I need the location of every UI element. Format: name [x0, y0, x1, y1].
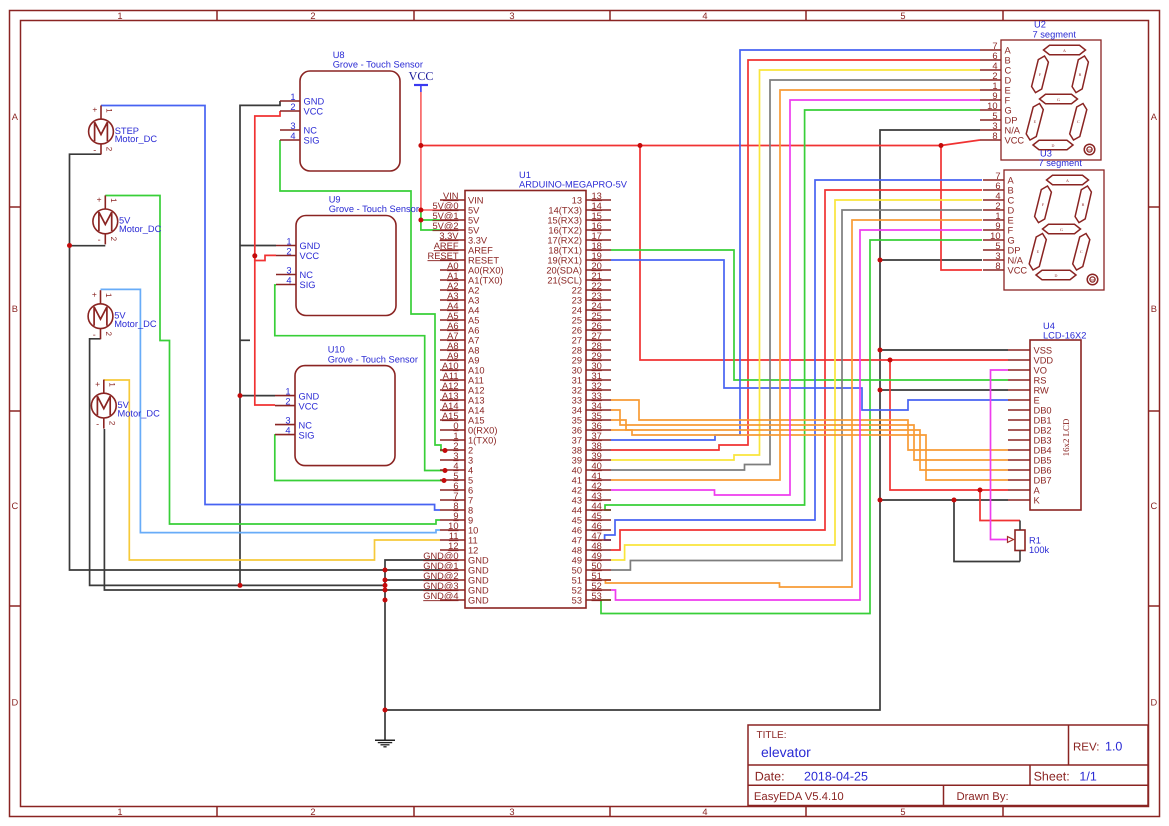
svg-text:DB3: DB3 — [1034, 436, 1052, 446]
svg-text:20: 20 — [592, 261, 602, 271]
svg-text:EasyEDA V5.4.10: EasyEDA V5.4.10 — [754, 791, 844, 803]
svg-text:18: 18 — [592, 241, 602, 251]
svg-text:TITLE:: TITLE: — [757, 730, 787, 741]
svg-text:GND: GND — [468, 556, 489, 566]
svg-text:GND@1: GND@1 — [423, 561, 458, 571]
svg-text:4: 4 — [290, 131, 295, 141]
svg-text:4: 4 — [702, 807, 707, 817]
wire VCC U9 pin2 jog — [255, 255, 276, 260]
IC U2 7 segment — [980, 20, 1101, 160]
IC U1 ARDUINO-MEGAPRO-5V — [465, 170, 628, 608]
svg-text:A15: A15 — [442, 411, 459, 421]
svg-text:SIG: SIG — [304, 136, 320, 146]
svg-text:AREF: AREF — [468, 246, 493, 256]
svg-text:D: D — [1055, 273, 1058, 278]
svg-text:1: 1 — [995, 211, 1000, 221]
wire D39 to U2 C — [611, 70, 980, 460]
svg-text:22: 22 — [572, 286, 582, 296]
svg-text:VIN: VIN — [443, 191, 459, 201]
wire GND motor4 to GND@3 — [104, 429, 440, 590]
svg-text:GND@0: GND@0 — [423, 551, 458, 561]
wire motor4 to pin11 — [104, 380, 440, 560]
svg-text:11: 11 — [449, 531, 459, 541]
wire VCC touch sensor chain — [255, 111, 280, 405]
svg-text:10: 10 — [468, 526, 478, 536]
svg-text:39: 39 — [592, 451, 602, 461]
svg-text:elevator: elevator — [761, 744, 811, 760]
svg-text:10: 10 — [990, 231, 1000, 241]
svg-text:17(RX2): 17(RX2) — [547, 236, 582, 246]
wire GND branch LCD RW — [880, 389, 1008, 391]
svg-text:17: 17 — [592, 231, 602, 241]
svg-text:A6: A6 — [447, 321, 458, 331]
svg-text:0(RX0): 0(RX0) — [468, 426, 497, 436]
svg-text:34: 34 — [592, 401, 602, 411]
svg-text:42: 42 — [572, 486, 582, 496]
svg-text:16x2 LCD: 16x2 LCD — [1061, 418, 1071, 456]
svg-text:48: 48 — [572, 546, 582, 556]
svg-text:B: B — [1008, 186, 1014, 196]
svg-text:25: 25 — [572, 316, 582, 326]
wire D36 to LCD DB7 — [611, 430, 1008, 480]
svg-text:40: 40 — [592, 461, 602, 471]
svg-text:A: A — [1151, 112, 1158, 122]
svg-text:1: 1 — [992, 81, 997, 91]
svg-text:VO: VO — [1034, 366, 1047, 376]
svg-text:47: 47 — [572, 536, 582, 546]
IC U4 LCD-16X2 — [1008, 321, 1086, 510]
svg-text:DB5: DB5 — [1034, 456, 1052, 466]
svg-text:E: E — [1008, 216, 1014, 226]
svg-text:VCC: VCC — [300, 251, 320, 261]
motor M 5V Motor_DC 3 — [88, 289, 157, 339]
svg-text:37: 37 — [572, 436, 582, 446]
svg-text:35: 35 — [592, 411, 602, 421]
svg-text:32: 32 — [592, 381, 602, 391]
svg-text:41: 41 — [592, 471, 602, 481]
svg-text:50: 50 — [592, 561, 602, 571]
svg-text:A12: A12 — [442, 381, 459, 391]
svg-text:-: - — [96, 419, 99, 429]
svg-text:5: 5 — [992, 111, 997, 121]
svg-text:D: D — [11, 698, 18, 708]
svg-text:A0: A0 — [447, 261, 458, 271]
svg-text:1: 1 — [105, 108, 114, 113]
svg-text:+: + — [95, 379, 100, 389]
svg-text:GND: GND — [468, 586, 489, 596]
svg-text:2018-04-25: 2018-04-25 — [804, 770, 868, 784]
svg-text:U10: U10 — [328, 345, 345, 355]
svg-text:46: 46 — [592, 521, 602, 531]
wire VCC to U3 pin8 — [941, 146, 982, 271]
svg-text:A2: A2 — [447, 281, 458, 291]
svg-text:A5: A5 — [468, 316, 479, 326]
svg-text:A7: A7 — [447, 331, 458, 341]
svg-text:AREF: AREF — [434, 241, 459, 251]
svg-text:3: 3 — [453, 451, 458, 461]
svg-text:8: 8 — [995, 261, 1000, 271]
svg-text:6: 6 — [453, 481, 458, 491]
svg-text:A2: A2 — [468, 286, 479, 296]
svg-text:5V@1: 5V@1 — [433, 211, 459, 221]
svg-text:7: 7 — [453, 491, 458, 501]
svg-text:5: 5 — [995, 241, 1000, 251]
svg-text:2: 2 — [453, 441, 458, 451]
svg-text:B: B — [1005, 56, 1011, 66]
svg-text:1: 1 — [453, 431, 458, 441]
svg-text:A11: A11 — [468, 376, 484, 386]
wire VCC main run — [421, 145, 941, 147]
svg-text:33: 33 — [572, 396, 582, 406]
svg-text:U3: U3 — [1040, 148, 1052, 158]
svg-text:VCC: VCC — [304, 107, 324, 117]
svg-text:27: 27 — [592, 331, 602, 341]
svg-text:A0(RX0): A0(RX0) — [468, 266, 504, 276]
title block texts — [754, 730, 1123, 803]
svg-text:12: 12 — [468, 546, 478, 556]
wire GND@0 vertical to ground — [385, 560, 440, 740]
svg-text:RESET: RESET — [468, 256, 499, 266]
svg-text:7: 7 — [468, 496, 473, 506]
svg-text:3: 3 — [468, 456, 473, 466]
svg-text:Motor_DC: Motor_DC — [119, 224, 162, 234]
svg-text:RS: RS — [1034, 376, 1047, 386]
svg-text:19(RX1): 19(RX1) — [547, 256, 582, 266]
wire VCC diagonal to U2 pin8 — [941, 140, 980, 146]
svg-text:B: B — [12, 304, 18, 314]
svg-text:8: 8 — [453, 501, 458, 511]
svg-text:13: 13 — [592, 191, 602, 201]
motor M 5V Motor_DC 2 — [93, 195, 162, 245]
wire GND motor3 — [90, 339, 385, 586]
svg-text:3: 3 — [285, 416, 290, 426]
svg-text:8: 8 — [992, 131, 997, 141]
svg-text:3: 3 — [509, 807, 514, 817]
svg-text:23: 23 — [592, 291, 602, 301]
svg-text:D: D — [1052, 143, 1055, 148]
svg-text:4: 4 — [453, 461, 458, 471]
svg-text:7: 7 — [995, 171, 1000, 181]
svg-text:29: 29 — [592, 351, 602, 361]
svg-text:3: 3 — [286, 266, 291, 276]
wire D19 to LCD E — [611, 260, 1008, 410]
svg-text:35: 35 — [572, 416, 582, 426]
svg-text:Grove - Touch Sensor: Grove - Touch Sensor — [333, 60, 423, 70]
wire A to R1 top — [980, 490, 1020, 521]
svg-text:1: 1 — [117, 807, 122, 817]
border column numbers — [117, 11, 905, 817]
svg-text:4: 4 — [995, 191, 1000, 201]
svg-text:C: C — [1005, 66, 1012, 76]
svg-text:44: 44 — [572, 506, 582, 516]
wire GND branch U3 N/A — [880, 259, 982, 261]
wire D53 to U3 G — [601, 240, 982, 614]
svg-text:N/A: N/A — [1005, 126, 1021, 136]
svg-text:49: 49 — [592, 551, 602, 561]
svg-text:B: B — [1082, 202, 1085, 207]
svg-text:A8: A8 — [468, 346, 479, 356]
svg-text:GND: GND — [468, 576, 489, 586]
wire D44 to U2 G — [605, 110, 980, 510]
svg-text:+: + — [92, 289, 97, 299]
svg-text:36: 36 — [572, 426, 582, 436]
svg-text:GND@4: GND@4 — [423, 591, 458, 601]
svg-text:C: C — [1080, 249, 1083, 254]
svg-text:A14: A14 — [468, 406, 485, 416]
svg-text:2: 2 — [105, 147, 114, 152]
svg-text:50: 50 — [572, 566, 582, 576]
wire D34 to LCD DB5 — [611, 410, 1008, 460]
svg-text:A1: A1 — [447, 271, 458, 281]
wire D48 to U3 B — [611, 190, 982, 550]
svg-text:DB2: DB2 — [1034, 426, 1052, 436]
svg-text:VIN: VIN — [468, 196, 484, 206]
svg-text:3.3V: 3.3V — [468, 236, 488, 246]
svg-text:F: F — [1008, 226, 1014, 236]
svg-text:1: 1 — [117, 11, 122, 21]
svg-text:9: 9 — [995, 221, 1000, 231]
svg-text:DB6: DB6 — [1034, 466, 1052, 476]
wire GND touch sensors chain — [240, 101, 280, 585]
svg-text:2: 2 — [107, 421, 116, 426]
svg-text:25: 25 — [592, 311, 602, 321]
svg-text:11: 11 — [468, 536, 478, 546]
svg-text:RW: RW — [1034, 386, 1050, 396]
svg-text:U8: U8 — [333, 50, 345, 60]
wire U8 SIG to pin2 — [280, 140, 445, 451]
svg-text:Grove - Touch Sensor: Grove - Touch Sensor — [328, 354, 418, 364]
power flag VCC — [409, 69, 434, 92]
svg-text:1: 1 — [285, 387, 290, 397]
wire GND U9 pin1 — [240, 245, 276, 247]
svg-text:9: 9 — [453, 511, 458, 521]
svg-text:SIG: SIG — [300, 280, 316, 290]
svg-text:-: - — [93, 145, 96, 155]
svg-text:4: 4 — [285, 426, 290, 436]
wire stub near U9 — [240, 339, 250, 341]
svg-text:47: 47 — [592, 531, 602, 541]
svg-text:E: E — [1034, 396, 1040, 406]
wire GND U10 pin1 — [240, 395, 275, 397]
svg-text:2: 2 — [468, 446, 473, 456]
svg-text:6: 6 — [992, 51, 997, 61]
svg-text:52: 52 — [572, 586, 582, 596]
wire VCC stem — [420, 92, 422, 146]
svg-text:A4: A4 — [447, 301, 458, 311]
svg-text:5: 5 — [900, 807, 905, 817]
svg-text:A3: A3 — [468, 296, 479, 306]
svg-text:6: 6 — [995, 181, 1000, 191]
svg-text:5: 5 — [468, 476, 473, 486]
svg-text:52: 52 — [592, 581, 602, 591]
wire VCC to 5V@0 — [421, 146, 440, 211]
svg-text:A: A — [1008, 176, 1015, 186]
svg-text:9: 9 — [992, 91, 997, 101]
svg-text:A: A — [1034, 486, 1041, 496]
svg-text:31: 31 — [592, 371, 602, 381]
svg-text:34: 34 — [572, 406, 582, 416]
svg-text:45: 45 — [592, 511, 602, 521]
svg-text:Motor_DC: Motor_DC — [118, 408, 161, 418]
svg-text:G: G — [1008, 236, 1015, 246]
svg-text:42: 42 — [592, 481, 602, 491]
wire GND@2 stub — [385, 579, 440, 581]
svg-text:A: A — [12, 112, 19, 122]
svg-text:U9: U9 — [329, 195, 341, 205]
svg-text:A12: A12 — [468, 386, 485, 396]
wire D37 to U2 A — [611, 50, 980, 440]
svg-text:NC: NC — [300, 270, 314, 280]
svg-text:VCC: VCC — [1005, 136, 1025, 146]
svg-text:E: E — [1005, 86, 1011, 96]
svg-text:15: 15 — [592, 211, 602, 221]
wire GND R1 bottom — [954, 500, 1020, 562]
svg-text:ARDUINO-MEGAPRO-5V: ARDUINO-MEGAPRO-5V — [519, 179, 628, 189]
svg-text:B: B — [1079, 72, 1082, 77]
wire D41 to U2 E — [611, 90, 980, 480]
svg-text:22: 22 — [592, 281, 602, 291]
svg-text:U2: U2 — [1034, 20, 1046, 30]
svg-text:NC: NC — [304, 126, 318, 136]
wire D50 to U3 D — [611, 210, 982, 570]
svg-text:Motor_DC: Motor_DC — [115, 134, 158, 144]
svg-text:Grove - Touch Sensor: Grove - Touch Sensor — [329, 204, 419, 214]
svg-text:18(TX1): 18(TX1) — [548, 246, 582, 256]
svg-text:5: 5 — [900, 11, 905, 21]
svg-text:2: 2 — [310, 11, 315, 21]
wire D51 to U3 E — [605, 220, 982, 587]
svg-text:A4: A4 — [468, 306, 479, 316]
svg-text:16: 16 — [592, 221, 602, 231]
svg-text:14: 14 — [592, 201, 602, 211]
wire motor2 to pin9 — [105, 196, 440, 525]
svg-text:27: 27 — [572, 336, 582, 346]
svg-text:24: 24 — [572, 306, 582, 316]
svg-text:53: 53 — [572, 596, 582, 606]
wire D42 to U2 F — [611, 100, 980, 495]
svg-text:30: 30 — [592, 361, 602, 371]
svg-text:8: 8 — [468, 506, 473, 516]
svg-text:49: 49 — [572, 556, 582, 566]
IC U8 Grove - Touch Sensor — [280, 50, 423, 171]
svg-text:39: 39 — [572, 456, 582, 466]
svg-text:3: 3 — [995, 251, 1000, 261]
svg-text:A14: A14 — [442, 401, 459, 411]
svg-text:37: 37 — [592, 431, 602, 441]
svg-text:A10: A10 — [442, 361, 459, 371]
border row letters — [11, 112, 1157, 708]
svg-text:A13: A13 — [468, 396, 485, 406]
svg-text:A9: A9 — [468, 356, 479, 366]
svg-text:DB4: DB4 — [1034, 446, 1052, 456]
svg-text:5V: 5V — [468, 216, 480, 226]
svg-text:U4: U4 — [1043, 321, 1055, 331]
svg-text:100k: 100k — [1029, 545, 1050, 555]
svg-text:2: 2 — [310, 807, 315, 817]
svg-text:30: 30 — [572, 366, 582, 376]
svg-text:24: 24 — [592, 301, 602, 311]
svg-text:2: 2 — [109, 237, 118, 242]
svg-text:10: 10 — [448, 521, 458, 531]
svg-text:3: 3 — [509, 11, 514, 21]
svg-text:D: D — [1008, 206, 1015, 216]
svg-text:16(TX2): 16(TX2) — [548, 226, 582, 236]
svg-text:4: 4 — [702, 11, 707, 21]
wire D49 to U3 C — [611, 200, 982, 560]
svg-text:GND@3: GND@3 — [423, 581, 458, 591]
svg-text:G: G — [1060, 227, 1063, 232]
svg-text:23: 23 — [572, 296, 582, 306]
wire motor3 to pin10 — [101, 289, 441, 532]
svg-text:19: 19 — [592, 251, 602, 261]
wire GND motor2 branch — [70, 245, 106, 247]
svg-text:2: 2 — [995, 201, 1000, 211]
wire D18 to LCD RS — [611, 250, 1008, 380]
svg-text:A1(TX0): A1(TX0) — [468, 276, 503, 286]
svg-text:A7: A7 — [468, 336, 479, 346]
wire U9 SIG to pin4 — [275, 285, 445, 471]
svg-text:DB0: DB0 — [1034, 406, 1052, 416]
svg-text:-: - — [98, 235, 101, 245]
wire U10 SIG to pin5 — [275, 435, 444, 481]
svg-text:1: 1 — [290, 92, 295, 102]
svg-text:Sheet:: Sheet: — [1034, 770, 1070, 784]
svg-text:3: 3 — [290, 121, 295, 131]
svg-text:C: C — [1008, 196, 1015, 206]
wire 5V@1 5V@2 links — [421, 210, 440, 230]
svg-text:40: 40 — [572, 466, 582, 476]
svg-text:K: K — [1034, 496, 1041, 506]
svg-text:2: 2 — [992, 71, 997, 81]
svg-text:21: 21 — [592, 271, 602, 281]
svg-text:GND@2: GND@2 — [423, 571, 458, 581]
svg-text:36: 36 — [592, 421, 602, 431]
svg-text:B: B — [1151, 304, 1157, 314]
svg-text:5: 5 — [453, 471, 458, 481]
svg-text:1: 1 — [104, 293, 113, 298]
svg-text:29: 29 — [572, 356, 582, 366]
svg-text:A8: A8 — [447, 341, 458, 351]
IC U10 Grove - Touch Sensor — [275, 345, 418, 466]
svg-text:VCC: VCC — [299, 401, 319, 411]
svg-text:REV:: REV: — [1073, 742, 1099, 754]
svg-text:43: 43 — [572, 496, 582, 506]
svg-text:DP: DP — [1005, 116, 1018, 126]
svg-text:VDD: VDD — [1034, 356, 1054, 366]
svg-text:D: D — [1005, 76, 1012, 86]
svg-text:Date:: Date: — [755, 770, 785, 784]
svg-text:DP: DP — [1091, 278, 1095, 282]
svg-text:Drawn By:: Drawn By: — [957, 791, 1009, 803]
svg-text:GND: GND — [300, 241, 321, 251]
svg-text:21(SCL): 21(SCL) — [547, 276, 582, 286]
wire D52 to U3 F — [611, 230, 982, 600]
svg-text:DP: DP — [1008, 246, 1021, 256]
U1 right pins with net labels — [546, 191, 611, 606]
svg-text:RESET: RESET — [428, 251, 459, 261]
svg-text:38: 38 — [572, 446, 582, 456]
svg-text:7 segment: 7 segment — [1039, 158, 1083, 168]
svg-text:4: 4 — [992, 61, 997, 71]
svg-text:NC: NC — [299, 420, 313, 430]
svg-text:A13: A13 — [442, 391, 459, 401]
svg-text:1(TX0): 1(TX0) — [468, 436, 496, 446]
svg-text:2: 2 — [285, 397, 290, 407]
svg-text:F: F — [1005, 96, 1011, 106]
svg-text:38: 38 — [592, 441, 602, 451]
svg-text:GND: GND — [304, 97, 325, 107]
IC U3 7 segment — [983, 148, 1104, 290]
